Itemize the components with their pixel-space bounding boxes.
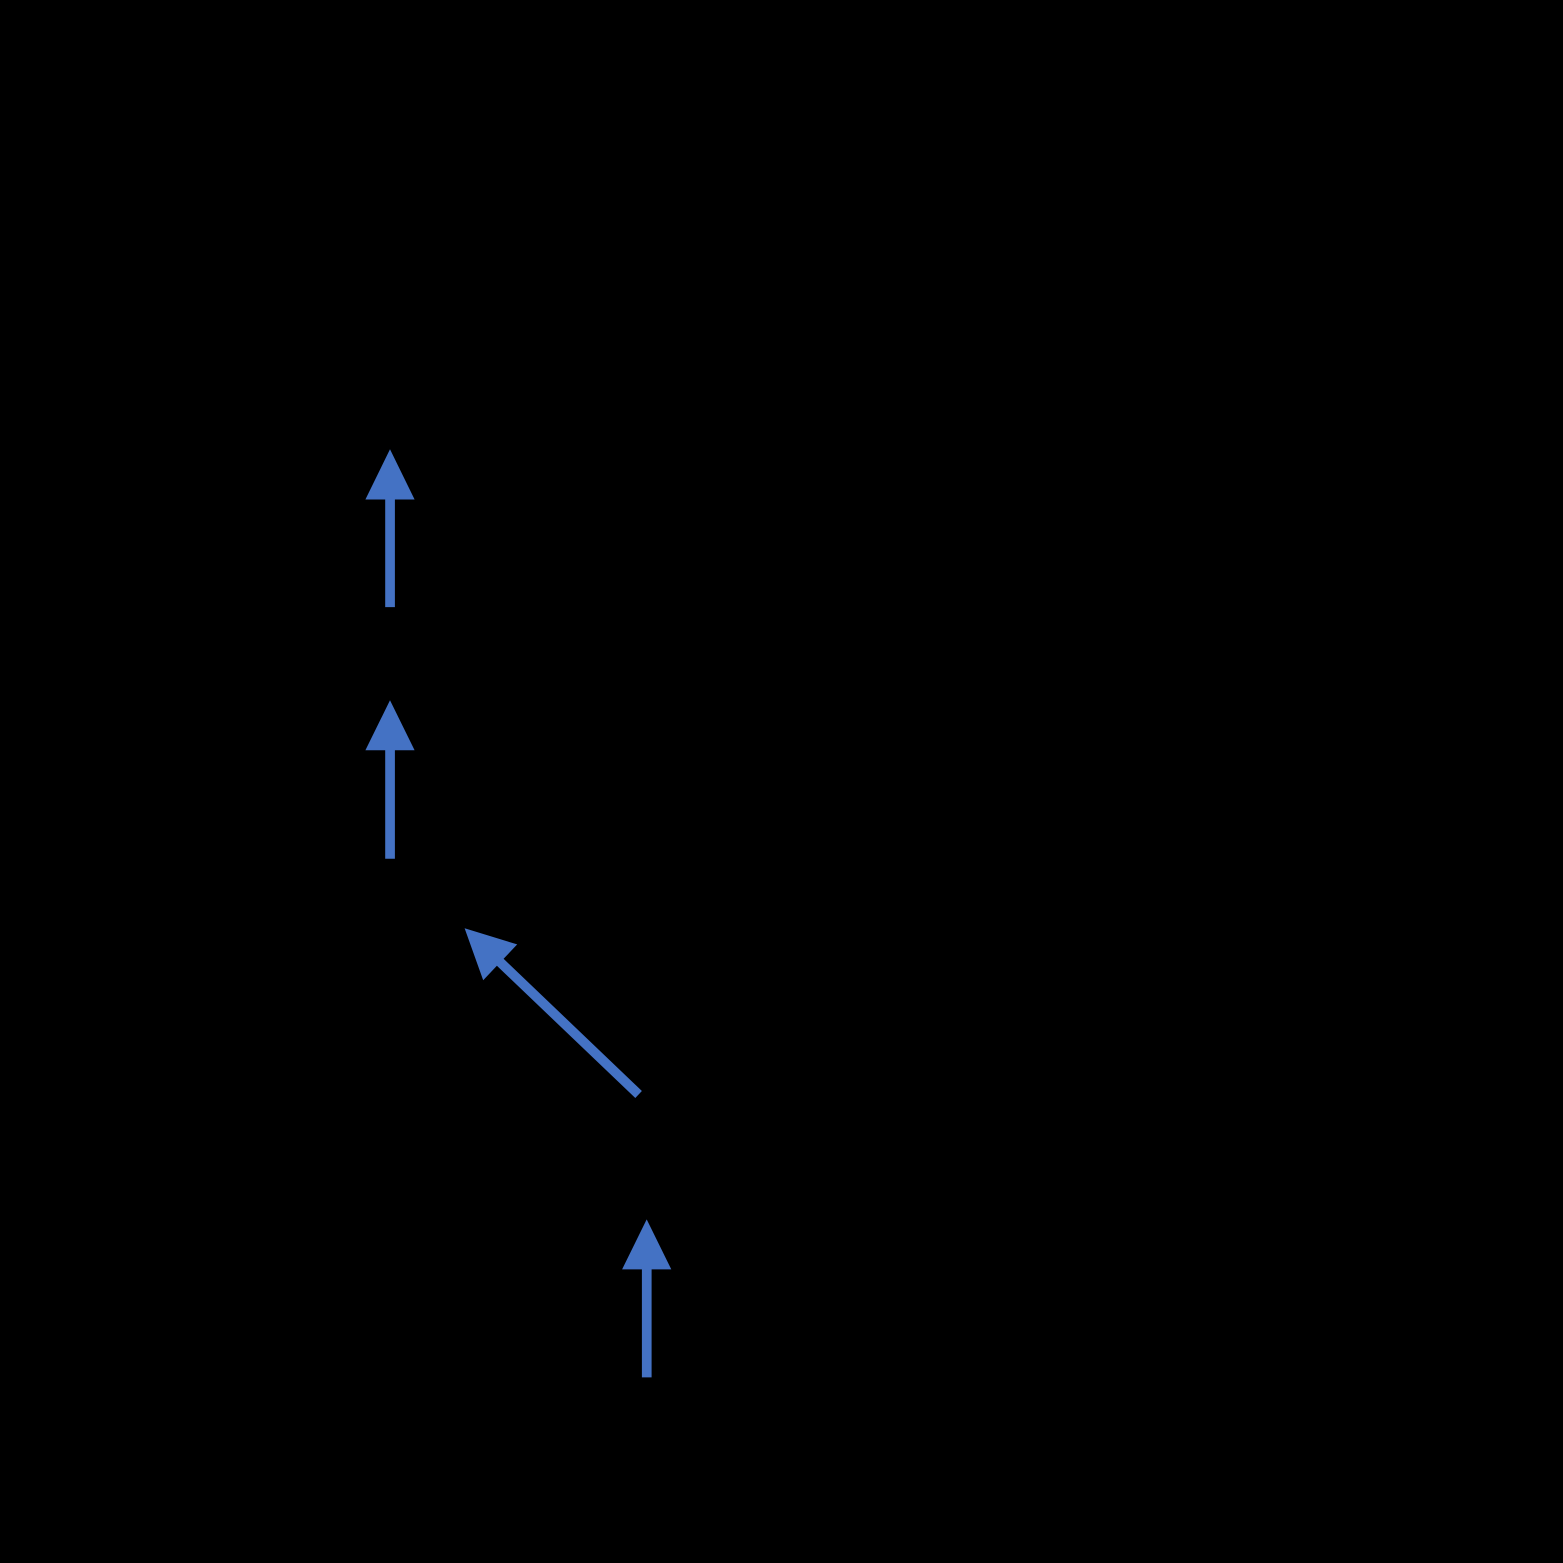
arrow 4: vertical up arrow, lower middle	[622, 1219, 671, 1377]
arrow 2: vertical up arrow, middle left	[365, 700, 414, 858]
arrow 1: vertical up arrow, upper left	[365, 449, 414, 607]
arrow 3: diagonal up-left arrow, center	[465, 928, 642, 1098]
